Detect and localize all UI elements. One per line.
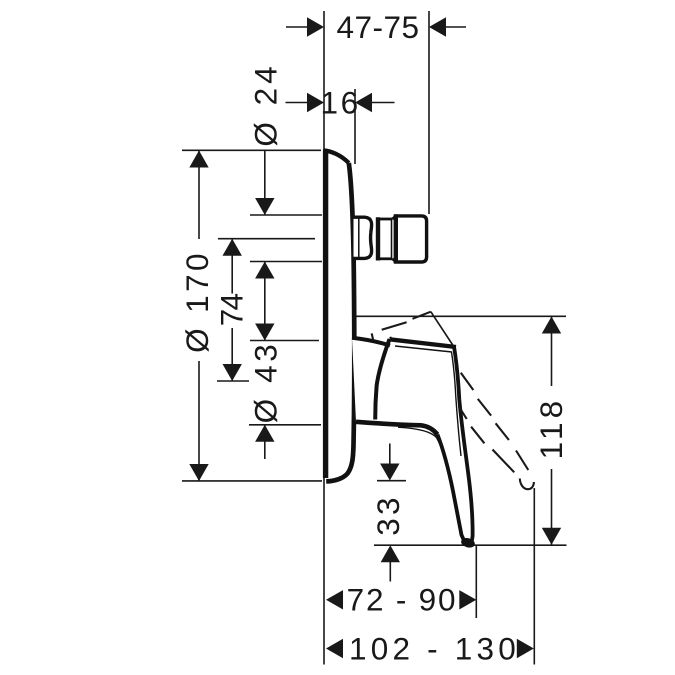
svg-text:118: 118 — [533, 397, 569, 460]
svg-text:Ø 24: Ø 24 — [248, 62, 284, 146]
svg-text:Ø 170: Ø 170 — [179, 250, 215, 353]
svg-text:16: 16 — [321, 85, 361, 121]
svg-text:Ø 43: Ø 43 — [248, 341, 284, 424]
svg-text:102 - 130: 102 - 130 — [349, 630, 520, 666]
svg-text:33: 33 — [370, 494, 406, 535]
svg-text:47-75: 47-75 — [336, 9, 419, 45]
svg-text:72 - 90: 72 - 90 — [347, 582, 458, 618]
svg-text:74: 74 — [214, 294, 250, 327]
